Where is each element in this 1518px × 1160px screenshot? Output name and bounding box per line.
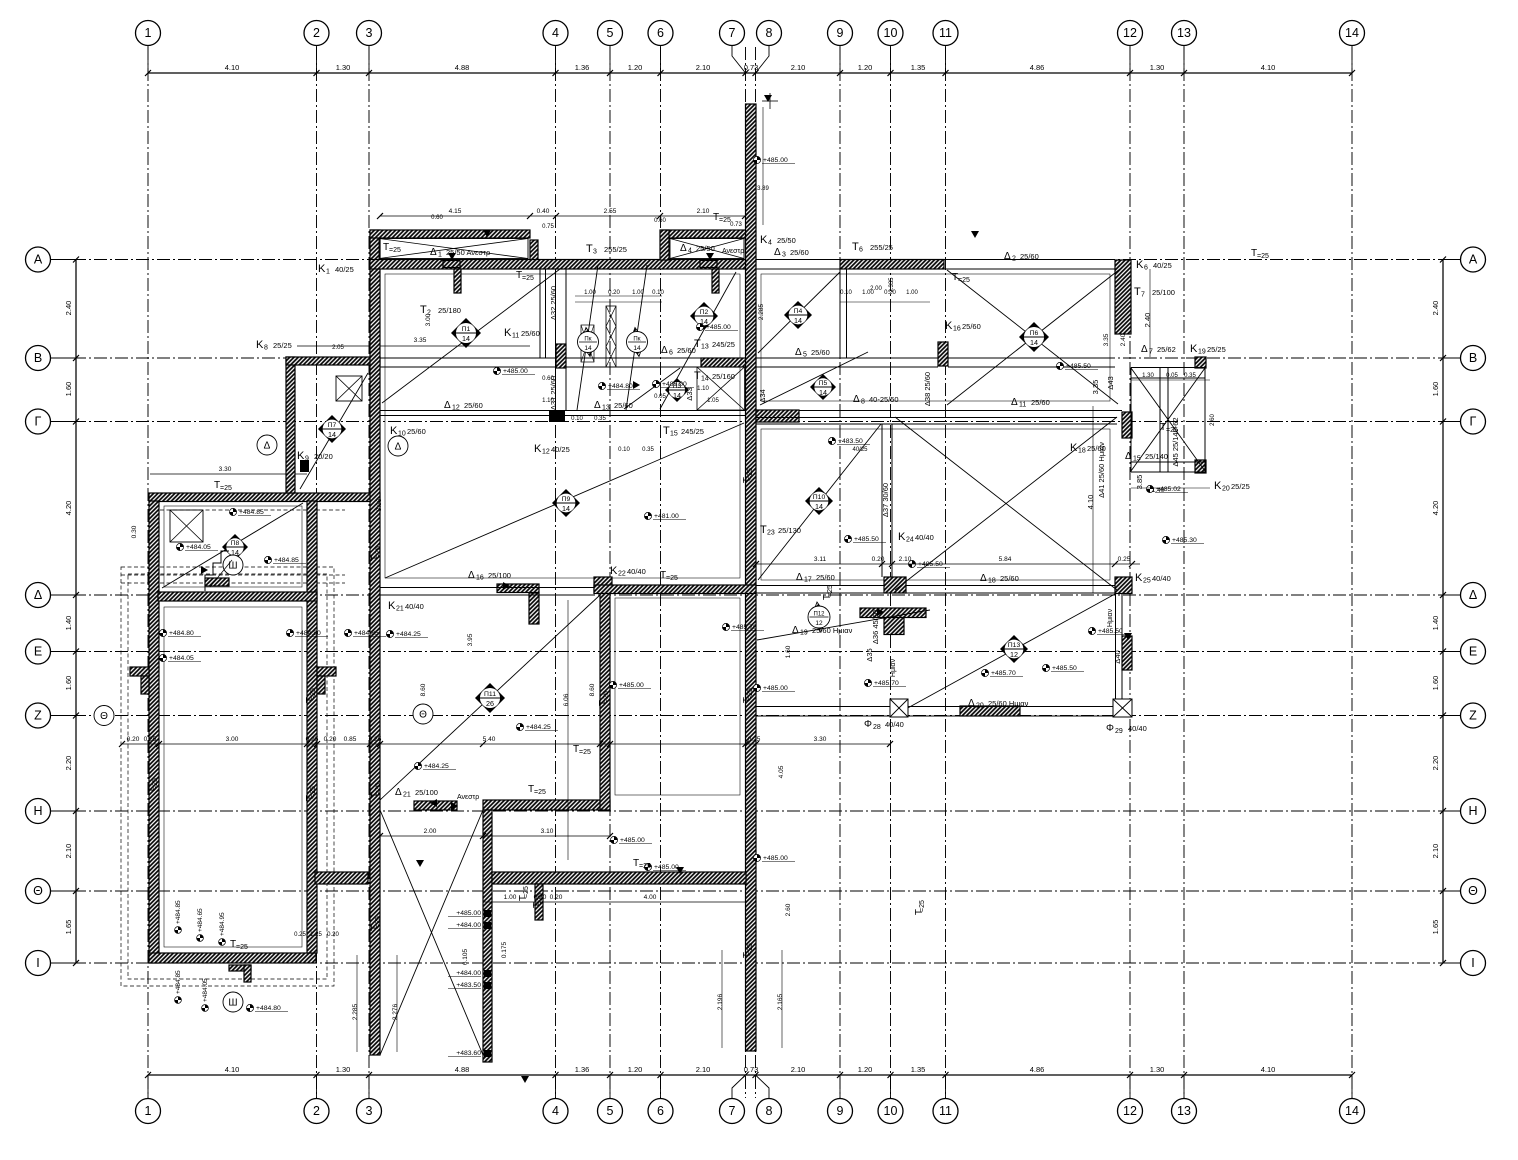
svg-text:6.105: 6.105 [462,948,469,965]
svg-text:+484.80: +484.80 [608,383,633,390]
svg-text:0.35: 0.35 [594,416,606,422]
level mark [908,560,915,567]
svg-text:21: 21 [396,606,404,613]
column K19 [1195,357,1206,368]
svg-text:1.25: 1.25 [310,932,322,938]
svg-text:40/40: 40/40 [405,602,424,611]
column K20 [1195,460,1206,473]
level mark [493,367,500,374]
svg-text:Ημιαν: Ημιαν [1107,608,1114,627]
slab diagonals [162,503,303,588]
svg-text:0.60: 0.60 [431,215,443,221]
svg-text:25/25: 25/25 [1207,345,1226,354]
svg-text:=25: =25 [375,916,382,928]
svg-text:25/180: 25/180 [438,306,461,315]
svg-text:=25: =25 [747,468,754,480]
svg-text:1.00: 1.00 [504,894,517,901]
level mark [1088,627,1095,634]
corner column K6 wall [1115,260,1131,334]
dashed foundation outline left wing [121,567,334,986]
svg-text:20: 20 [976,703,984,710]
svg-text:Δ: Δ [395,442,402,453]
main top band [370,260,746,270]
column K12 solid [549,411,565,423]
svg-text:4.88: 4.88 [455,63,470,72]
svg-text:3.36: 3.36 [376,498,383,511]
svg-text:H: H [33,804,42,818]
svg-text:Δ: Δ [1004,251,1011,262]
anchor hatch1 [443,261,460,268]
svg-text:2.285: 2.285 [758,303,765,320]
svg-text:B: B [34,351,42,365]
svg-text:+485.70: +485.70 [874,680,899,687]
svg-text:2.276: 2.276 [392,1003,399,1020]
svg-text:245/25: 245/25 [681,427,704,436]
column row Delta grid10 [884,577,906,593]
svg-text:2.10: 2.10 [696,63,711,72]
svg-text:Δ: Δ [395,787,402,798]
level mark [644,512,651,519]
svg-text:Δ: Δ [264,441,271,452]
level mark [414,762,421,769]
svg-text:0.10: 0.10 [618,447,630,453]
svg-text:=25: =25 [375,783,382,795]
beam D21 hatch [414,801,457,810]
svg-text:6: 6 [657,26,664,40]
svg-text:Π8: Π8 [231,540,240,547]
svg-text:1.05: 1.05 [707,398,719,404]
beam D20 hatch [960,706,1020,716]
svg-text:25/25: 25/25 [273,341,292,350]
svg-text:+489.00: +489.00 [662,381,687,388]
section marker Sh2 [223,992,243,1012]
svg-text:+485.00: +485.00 [620,837,645,844]
level mark [229,508,236,515]
svg-text:2.10: 2.10 [899,556,912,563]
plate P10 [805,487,833,515]
svg-text:1: 1 [438,252,442,259]
svg-text:25/60: 25/60 [1000,574,1019,583]
svg-text:=25: =25 [220,485,232,492]
svg-text:4.86: 4.86 [1030,63,1045,72]
svg-text:1.40: 1.40 [1431,616,1440,631]
svg-text:+484.80: +484.80 [296,630,321,637]
svg-text:0.20: 0.20 [324,736,337,743]
svg-text:5: 5 [607,26,614,40]
svg-text:Δ37 30/60: Δ37 30/60 [881,483,890,517]
svg-text:25/60: 25/60 [962,322,981,331]
dim line y=902 [483,901,746,903]
svg-text:T: T [663,425,670,437]
svg-text:K: K [1070,442,1078,454]
svg-text:T: T [1134,286,1141,298]
svg-text:T: T [586,243,593,255]
svg-text:K: K [504,327,512,339]
svg-text:=25: =25 [579,749,591,756]
svg-text:2.10: 2.10 [697,208,710,215]
plate P4 [784,301,812,329]
svg-text:12: 12 [1123,1104,1137,1118]
svg-text:1.30: 1.30 [336,63,351,72]
svg-text:4.10: 4.10 [225,1065,240,1074]
dim chain y=744 [122,743,890,745]
K19 room dims [1131,379,1210,381]
column K25 [1115,577,1132,594]
svg-text:0.35: 0.35 [642,447,654,453]
plate P11 [475,683,505,713]
svg-text:3.30: 3.30 [814,736,827,743]
svg-text:Δ: Δ [980,573,987,584]
svg-text:25/100: 25/100 [488,571,511,580]
svg-text:14: 14 [673,391,681,400]
small dims top mid [575,301,662,303]
svg-text:Θ: Θ [1468,884,1478,898]
level mark [159,629,166,636]
svg-text:25/60: 25/60 [1020,252,1039,261]
svg-text:10: 10 [884,26,898,40]
small arrows [448,253,456,260]
svg-text:7: 7 [729,1104,736,1118]
svg-text:3.95: 3.95 [467,633,474,646]
svg-text:+485.00: +485.00 [763,685,788,692]
svg-text:11: 11 [939,1104,952,1118]
svg-text:2.40: 2.40 [64,301,73,316]
svg-text:23: 23 [767,530,775,537]
svg-text:K: K [1214,480,1222,492]
level mark [286,629,293,636]
level mark [753,854,760,861]
stub grid4 row B [556,344,566,368]
svg-text:9: 9 [305,456,309,463]
svg-text:5.40: 5.40 [483,736,496,743]
svg-text:1.30: 1.30 [336,1065,351,1074]
svg-text:B: B [1469,351,1477,365]
svg-text:40/40: 40/40 [885,720,904,729]
svg-text:Π6: Π6 [1030,330,1039,337]
inner wall row Delta left wing [158,592,317,601]
svg-text:14: 14 [1345,1104,1359,1118]
svg-text:4.20: 4.20 [64,501,73,516]
svg-text:9: 9 [837,26,844,40]
svg-text:0.10: 0.10 [571,416,583,422]
svg-text:4.10: 4.10 [225,63,240,72]
svg-text:4.05: 4.05 [778,765,785,778]
svg-text:Δ: Δ [1125,451,1132,462]
svg-text:7: 7 [1141,292,1145,299]
svg-text:11: 11 [1019,402,1026,409]
svg-text:14: 14 [584,345,592,352]
stair arrow line [210,560,232,587]
svg-text:+485.00: +485.00 [503,368,528,375]
column K9 solid [300,460,309,472]
svg-text:+483.60: +483.60 [456,1050,481,1057]
svg-text:40/25: 40/25 [852,447,868,453]
svg-text:2.10: 2.10 [696,1065,711,1074]
svg-text:8.60: 8.60 [420,683,427,696]
crossed duct [606,306,616,367]
wall row B piece [701,358,746,367]
level mark [1162,536,1169,543]
level mark [609,681,616,688]
svg-text:+484.05: +484.05 [169,655,194,662]
svg-text:8: 8 [766,26,773,40]
plate P7 [318,415,346,443]
svg-text:0.35: 0.35 [1184,373,1196,379]
svg-text:3: 3 [366,1104,373,1118]
svg-text:Π7: Π7 [328,422,337,429]
svg-text:0.75: 0.75 [542,224,554,230]
svg-text:19: 19 [1198,349,1206,356]
svg-text:40/25: 40/25 [551,445,570,454]
svg-text:+485.00: +485.00 [654,864,679,871]
svg-text:2.40: 2.40 [1120,333,1127,346]
svg-text:3.00: 3.00 [226,736,239,743]
svg-text:1: 1 [145,1104,152,1118]
svg-text:+483.50: +483.50 [456,982,481,989]
svg-text:2.165: 2.165 [777,993,784,1010]
svg-text:15: 15 [1133,456,1141,463]
svg-text:11: 11 [512,333,519,340]
section marker Sh1 [223,555,243,575]
plate P13 [1000,635,1028,663]
svg-text:Π10: Π10 [813,494,826,501]
svg-text:Δ33: Δ33 [685,387,694,400]
level mark [386,630,393,637]
bottom band left of grid3 [315,872,368,884]
wall row Delta mid [594,585,756,594]
svg-text:0.73: 0.73 [744,1065,759,1074]
svg-text:Δ: Δ [1469,588,1477,602]
svg-text:16: 16 [476,575,484,582]
anchor hatch2v [712,269,719,293]
svg-text:2.60: 2.60 [1210,414,1216,426]
svg-text:E: E [34,645,42,659]
wall grid4 stair right [483,810,492,1062]
plate P2 [690,302,718,330]
svg-text:+485.70: +485.70 [732,624,757,631]
svg-text:Δ: Δ [444,400,451,411]
svg-text:3.35: 3.35 [414,337,427,344]
svg-text:4: 4 [688,248,692,255]
svg-text:16: 16 [953,326,961,333]
svg-text:Π12: Π12 [813,612,825,618]
ext step bottom [229,965,251,971]
level mark [159,654,166,661]
svg-text:3.10: 3.10 [541,828,554,835]
svg-text:=25: =25 [603,691,610,703]
plate P3 [665,378,689,402]
svg-text:+483.50: +483.50 [838,438,863,445]
top wall right part [662,230,746,238]
svg-text:15: 15 [670,431,678,438]
level mark [176,543,183,550]
bottom wall left wing [149,953,316,963]
left dimension line [75,260,77,964]
svg-text:Π5: Π5 [819,380,828,387]
svg-text:25/60: 25/60 [1031,398,1050,407]
svg-text:10: 10 [398,431,406,438]
svg-text:25/60: 25/60 [407,427,426,436]
svg-text:+485.00: +485.00 [706,324,731,331]
level mark [864,679,871,686]
svg-text:14: 14 [328,430,336,439]
beam lines [756,259,840,261]
svg-text:1.00: 1.00 [906,290,918,296]
level mark [844,535,851,542]
svg-text:25/25: 25/25 [1231,482,1250,491]
svg-text:0.25: 0.25 [144,736,157,743]
svg-text:2.40: 2.40 [1431,301,1440,316]
svg-text:13: 13 [701,344,709,351]
right dimension line [1442,260,1444,964]
svg-text:0.73: 0.73 [744,63,759,72]
svg-text:25: 25 [1143,578,1151,585]
bottom band to central wall [492,872,746,884]
beam D40 hatch [1122,636,1132,670]
svg-text:2.10: 2.10 [1431,844,1440,859]
svg-text:18: 18 [1078,448,1086,455]
grid bubbles left/right [50,259,76,261]
svg-text:+484.00: +484.00 [456,970,481,977]
svg-text:+484.25: +484.25 [526,724,551,731]
svg-text:K: K [534,443,542,455]
svg-text:Δ38 25/60: Δ38 25/60 [923,372,932,406]
svg-text:Ημιαν: Ημιαν [890,658,897,677]
svg-text:3.00: 3.00 [425,313,432,326]
stub below bottom band [535,884,543,920]
svg-text:1.10: 1.10 [542,398,554,404]
plate Pk right [630,328,645,357]
svg-text:5: 5 [607,1104,614,1118]
svg-text:4.00: 4.00 [644,894,657,901]
svg-text:14: 14 [794,316,802,325]
svg-text:3: 3 [366,26,373,40]
svg-text:25/62: 25/62 [1157,345,1176,354]
svg-text:+485.70: +485.70 [991,670,1016,677]
crossed box room left mid [336,376,362,401]
svg-text:25/60: 25/60 [677,346,696,355]
svg-text:Π9: Π9 [562,496,571,503]
step landing right v [317,676,325,694]
svg-text:2: 2 [1012,256,1016,263]
svg-text:0.20: 0.20 [534,894,547,901]
svg-text:2.00: 2.00 [870,286,882,292]
svg-text:4.20: 4.20 [1431,501,1440,516]
svg-text:25/60 Ημιαν: 25/60 Ημιαν [812,626,853,635]
svg-text:40/25: 40/25 [1153,261,1172,270]
svg-text:25/60: 25/60 [614,401,633,410]
level mark [610,836,617,843]
svg-text:A: A [34,253,43,267]
plate P1 [451,318,481,348]
svg-text:0.25: 0.25 [748,736,761,743]
section marker D1 [257,435,277,455]
svg-text:=25: =25 [666,575,678,582]
svg-text:7: 7 [729,26,736,40]
svg-text:T: T [852,241,859,253]
svg-text:25/60: 25/60 [790,248,809,257]
svg-text:=25: =25 [523,886,530,898]
svg-text:Δ: Δ [774,247,781,258]
svg-text:Δ: Δ [796,572,803,583]
svg-text:6: 6 [669,350,673,357]
step landing right [317,667,336,676]
svg-text:2.10: 2.10 [791,1065,806,1074]
svg-text:Δ: Δ [792,625,799,636]
svg-text:12: 12 [452,405,460,412]
svg-text:Δ43: Δ43 [1106,376,1115,389]
svg-text:25/60: 25/60 [521,329,540,338]
svg-text:1.20: 1.20 [628,1065,643,1074]
svg-text:13: 13 [602,405,610,412]
svg-text:25/100: 25/100 [415,788,438,797]
svg-text:19: 19 [800,630,808,637]
svg-text:21: 21 [403,792,411,799]
svg-text:Π4: Π4 [794,308,803,315]
svg-text:2.335: 2.335 [889,277,895,293]
svg-text:25/130: 25/130 [778,526,801,535]
level mark [516,723,523,730]
svg-text:=25: =25 [152,778,159,790]
svg-text:2.60: 2.60 [785,903,792,916]
svg-text:1.35: 1.35 [911,1065,926,1074]
svg-text:22: 22 [618,571,626,578]
stair landing hatch [205,578,229,586]
svg-text:1.10: 1.10 [697,386,709,392]
level mark [981,669,988,676]
stub row B grid11 [938,342,948,366]
svg-text:40-25/50: 40-25/50 [869,395,899,404]
svg-text:=25: =25 [375,546,382,558]
svg-text:5: 5 [803,352,807,359]
svg-text:25/60: 25/60 [811,348,830,357]
svg-text:=25: =25 [827,585,834,597]
level mark [264,556,271,563]
svg-text:0.85: 0.85 [344,736,357,743]
beam box Delta4 with X [670,239,744,259]
svg-text:0.25: 0.25 [369,736,382,743]
svg-text:0.175: 0.175 [501,941,508,958]
svg-text:0.25: 0.25 [1118,556,1131,563]
svg-text:H: H [1468,804,1477,818]
dim 3.35 above K8 [297,345,530,347]
svg-text:25/140: 25/140 [1145,452,1168,461]
level mark [652,380,659,387]
svg-text:1.40: 1.40 [64,616,73,631]
svg-text:=25: =25 [958,277,970,284]
svg-text:K: K [610,565,618,577]
svg-text:14: 14 [701,376,709,383]
svg-text:=25: =25 [747,943,754,955]
svg-text:25/100: 25/100 [1152,288,1175,297]
wall row A right wing [840,260,944,270]
level mark [1042,664,1049,671]
svg-text:+484.00: +484.00 [456,922,481,929]
level mark [644,863,651,870]
step landing left v [141,676,149,694]
svg-text:=25: =25 [747,688,754,700]
svg-text:0.05: 0.05 [1166,373,1178,379]
svg-text:24: 24 [906,537,914,544]
svg-text:Πκ: Πκ [633,337,641,343]
svg-text:Π1: Π1 [462,326,471,333]
svg-text:K: K [760,234,768,246]
level mark [753,156,760,163]
svg-text:0.73: 0.73 [730,222,742,228]
svg-text:14: 14 [819,388,827,397]
bottom dimension line [148,1074,1352,1076]
svg-text:Γ: Γ [35,415,42,429]
